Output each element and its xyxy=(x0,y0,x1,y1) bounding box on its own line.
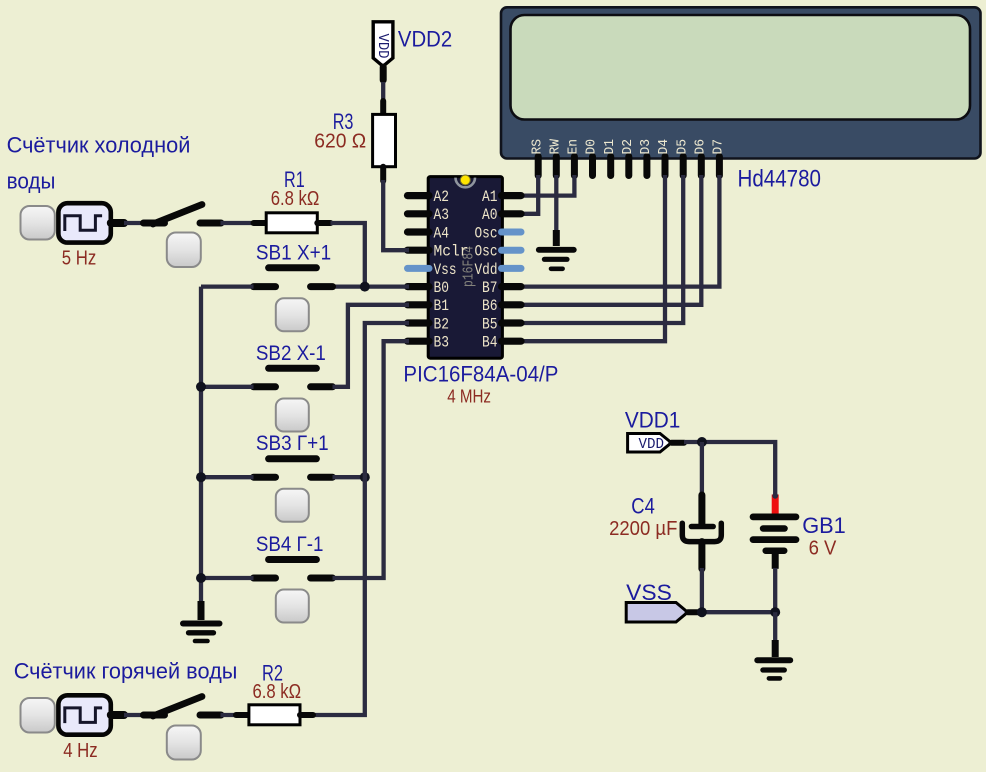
svg-text:D5: D5 xyxy=(674,139,690,155)
wire B5 to D5 xyxy=(519,175,683,323)
pin A1 xyxy=(482,188,521,206)
svg-text:620 Ω: 620 Ω xyxy=(314,131,366,153)
svg-text:D4: D4 xyxy=(656,139,672,155)
node bus SB2 junction xyxy=(196,382,206,392)
power flag VDD2 xyxy=(373,22,393,80)
LCD pin RW xyxy=(548,138,564,175)
wire VDD2 to R3 xyxy=(381,82,385,104)
LCD pin D6 xyxy=(693,139,709,176)
pin Vss blue stub xyxy=(408,261,457,279)
pin A4 xyxy=(408,224,450,242)
wire SB2 to B1 xyxy=(333,305,410,387)
button actuator SA1 xyxy=(167,233,201,268)
wire VDD1 to C4 xyxy=(700,442,704,498)
LCD pin D7 xyxy=(711,139,727,176)
resistor R1 xyxy=(254,213,331,233)
chip notch arc xyxy=(456,178,476,188)
svg-text:C4: C4 xyxy=(631,494,655,519)
svg-text:5 Hz: 5 Hz xyxy=(62,248,97,270)
button actuator SB3 xyxy=(276,489,309,522)
battery GB1 red lead xyxy=(772,493,778,514)
node B2 junction xyxy=(360,472,370,482)
button actuator SB4 xyxy=(276,590,309,623)
LCD pin D1 xyxy=(602,139,618,176)
svg-text:D7: D7 xyxy=(711,139,727,155)
wire B7 to D7 xyxy=(519,175,719,287)
wire GB1 to VSS rail xyxy=(773,568,777,614)
pin B2 xyxy=(408,315,450,333)
pulse generator G1 xyxy=(58,203,124,242)
svg-text:VDD2: VDD2 xyxy=(398,26,452,51)
power flag VSS xyxy=(626,603,699,623)
pin B3 xyxy=(408,334,450,352)
pulse generator G2 xyxy=(58,695,124,734)
wire G2 to SA2 xyxy=(124,713,146,717)
pin B0 xyxy=(408,279,450,297)
svg-text:B1: B1 xyxy=(434,297,450,315)
svg-text:B2: B2 xyxy=(434,315,450,333)
battery GB1 xyxy=(753,517,796,569)
pin B4 xyxy=(482,334,521,352)
wire R3 to Mclr xyxy=(383,180,409,250)
switch SA2 xyxy=(144,697,222,717)
pin Osc2 blue stub xyxy=(475,243,522,261)
svg-text:4 Hz: 4 Hz xyxy=(63,740,97,762)
pin Mclr xyxy=(408,243,469,261)
svg-text:VDD: VDD xyxy=(639,437,665,453)
LCD pin RS xyxy=(529,139,545,176)
button actuator hot generator xyxy=(21,698,55,733)
LCD pin D0 xyxy=(584,139,600,176)
pin A2 xyxy=(408,188,450,206)
pin B5 xyxy=(482,315,521,333)
svg-text:B6: B6 xyxy=(482,297,498,315)
wire B4 to D4 xyxy=(519,175,665,341)
svg-text:D3: D3 xyxy=(638,139,654,155)
svg-text:Счётчик холодной: Счётчик холодной xyxy=(7,133,191,158)
wire R1 to node B0 xyxy=(331,223,365,287)
button actuator SB2 xyxy=(276,399,309,432)
op-amp U1 PIC16F84A body xyxy=(428,177,502,359)
node bus SB3 junction xyxy=(196,472,206,482)
push button SB4 xyxy=(254,560,333,579)
svg-text:D0: D0 xyxy=(584,139,600,155)
svg-text:4 MHz: 4 MHz xyxy=(447,386,491,407)
node VSS C4 junction xyxy=(697,607,707,617)
svg-text:B4: B4 xyxy=(482,334,498,352)
svg-text:VDD1: VDD1 xyxy=(625,407,681,432)
LCD pin D3 xyxy=(638,139,654,176)
capacitor C4 xyxy=(682,495,721,569)
svg-text:SB2 X-1: SB2 X-1 xyxy=(256,341,326,365)
svg-text:A2: A2 xyxy=(434,188,450,206)
LCD pin D5 xyxy=(674,139,690,176)
wire C4 to VSS rail xyxy=(700,568,704,612)
button actuator SA2 xyxy=(167,726,201,760)
push button SB1 xyxy=(254,268,333,287)
wire SB3 to node B2 xyxy=(333,475,365,479)
wire B6 to D6 xyxy=(519,175,701,305)
button actuator SB1 xyxy=(276,298,309,331)
svg-text:Hd44780: Hd44780 xyxy=(738,166,822,193)
svg-text:D1: D1 xyxy=(602,139,618,155)
svg-text:Mclr: Mclr xyxy=(434,243,469,261)
LCD pin En xyxy=(566,139,582,176)
wire VSS rail xyxy=(698,610,775,614)
pin Vdd blue stub xyxy=(475,261,522,279)
push button SB2 xyxy=(254,368,333,387)
wire G1 to SA1 xyxy=(124,221,146,225)
node B0 junction xyxy=(360,282,370,292)
wire RW to ground xyxy=(554,175,558,240)
pin B1 xyxy=(408,297,450,315)
wire SA2 to R2 xyxy=(221,713,238,717)
svg-text:A1: A1 xyxy=(482,188,498,206)
svg-text:VDD: VDD xyxy=(374,34,391,59)
wire SB4 to bus xyxy=(201,576,254,580)
svg-text:6.8 kΩ: 6.8 kΩ xyxy=(253,681,302,703)
svg-text:Vss: Vss xyxy=(434,261,457,279)
svg-text:RW: RW xyxy=(548,138,564,154)
svg-text:D2: D2 xyxy=(620,139,636,155)
pin Osc1 blue stub xyxy=(475,224,522,242)
svg-text:RS: RS xyxy=(529,139,545,155)
svg-text:6 V: 6 V xyxy=(809,537,837,559)
wire SB1 to bus xyxy=(201,284,254,288)
svg-text:SB4 Г-1: SB4 Г-1 xyxy=(256,532,324,556)
svg-text:D6: D6 xyxy=(693,139,709,155)
svg-text:B0: B0 xyxy=(434,279,450,297)
button actuator cold generator xyxy=(21,206,55,240)
pin A3 xyxy=(408,206,450,224)
svg-text:A3: A3 xyxy=(434,206,450,224)
wire SB2 to bus xyxy=(201,385,254,389)
pin B6 xyxy=(482,297,521,315)
wire En to A1 xyxy=(519,175,574,196)
wire B2 vertical to R2 xyxy=(313,323,409,715)
pin B7 xyxy=(482,279,521,297)
svg-text:B3: B3 xyxy=(434,334,450,352)
svg-text:Osc: Osc xyxy=(475,224,498,242)
svg-text:PIC16F84A-04/P: PIC16F84A-04/P xyxy=(403,361,558,386)
svg-text:Osc: Osc xyxy=(475,243,498,261)
wire SA1 to R1 xyxy=(221,221,256,225)
wire SB4 to B3 xyxy=(333,341,410,578)
wire SB3 to bus xyxy=(201,475,254,479)
LCD pin D2 xyxy=(620,139,636,176)
resistor R3 xyxy=(373,101,396,181)
node bus SB4 junction xyxy=(196,573,206,583)
switch SA1 xyxy=(144,205,222,225)
pin A0 xyxy=(482,206,521,224)
svg-text:GB1: GB1 xyxy=(802,513,846,538)
svg-text:En: En xyxy=(566,139,582,155)
svg-text:A0: A0 xyxy=(482,206,498,224)
chip pin-1 dot xyxy=(460,175,470,185)
node VDD1 junction xyxy=(697,437,707,447)
node VSS GB1 junction xyxy=(770,607,780,617)
svg-text:Счётчик горячей воды: Счётчик горячей воды xyxy=(14,659,238,684)
svg-text:Vdd: Vdd xyxy=(475,261,498,279)
svg-text:6.8 kΩ: 6.8 kΩ xyxy=(271,188,320,210)
wire RS to A0 xyxy=(519,175,538,214)
ground battery xyxy=(757,640,790,678)
svg-text:A4: A4 xyxy=(434,224,450,242)
svg-text:SB3 Г+1: SB3 Г+1 xyxy=(256,431,329,455)
wire SB1 to B0 xyxy=(333,284,410,288)
wire VDD1 rail xyxy=(684,442,775,496)
svg-text:B7: B7 xyxy=(482,279,498,297)
svg-text:B5: B5 xyxy=(482,315,498,333)
ground under RW xyxy=(539,230,574,269)
svg-text:воды: воды xyxy=(7,169,56,194)
svg-text:SB1 X+1: SB1 X+1 xyxy=(256,240,331,264)
svg-text:2200 µF: 2200 µF xyxy=(609,518,677,540)
resistor R2 xyxy=(236,705,313,725)
wire VSS to ground xyxy=(773,612,777,642)
ground bus xyxy=(183,601,220,641)
push button SB3 xyxy=(254,459,333,477)
wire left bus xyxy=(199,287,203,604)
power flag VDD1 xyxy=(628,434,684,453)
LCD display LCD1 body xyxy=(501,7,981,158)
LCD pin D4 xyxy=(656,139,672,176)
